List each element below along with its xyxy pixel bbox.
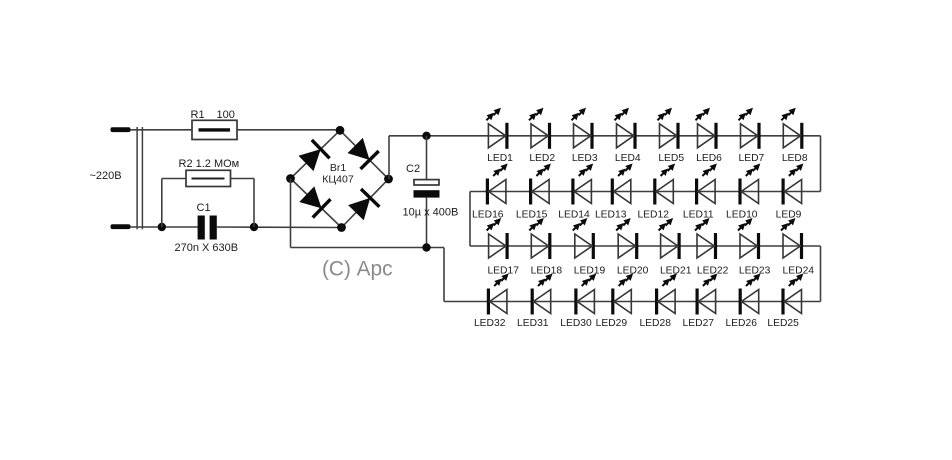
svg-text:LED13: LED13 <box>595 210 627 221</box>
node bridge bottom <box>337 223 346 232</box>
svg-text:Br1: Br1 <box>330 162 347 174</box>
wire LED row 2 <box>470 191 821 193</box>
AC connector line 2 <box>141 127 143 229</box>
wire R2 left lead <box>162 178 186 180</box>
LED LED25 <box>767 274 803 330</box>
label 270n X 630В <box>175 242 239 254</box>
LED LED20 <box>616 218 648 277</box>
svg-text:LED20: LED20 <box>617 266 649 277</box>
wire C2 top lead <box>426 136 428 180</box>
svg-text:LED29: LED29 <box>596 318 628 329</box>
wire DC- horizontal <box>291 247 445 249</box>
label ~220В <box>90 170 122 182</box>
wire DC+ rail (to LED row 1) <box>389 135 821 137</box>
node bridge top <box>336 126 345 135</box>
svg-text:LED24: LED24 <box>783 266 815 277</box>
resistor R2 <box>186 170 231 186</box>
svg-text:(С) Арс: (С) Арс <box>322 258 392 281</box>
bridge diode D4 (B to R) <box>348 189 379 220</box>
svg-text:КЦ407: КЦ407 <box>322 174 354 186</box>
wire top-left (plug to R1) <box>131 129 193 131</box>
bridge diode D3 (L to B) <box>299 186 330 217</box>
label КЦ407 <box>322 174 354 186</box>
wire bridge right node up <box>388 136 390 179</box>
wire C1 to bridge bottom node <box>217 226 342 229</box>
node C2 top junction <box>422 132 430 140</box>
svg-text:LED26: LED26 <box>725 318 757 329</box>
capacitor C1 <box>198 216 217 240</box>
LED LED7 <box>739 108 765 164</box>
LED LED11 <box>683 164 717 221</box>
label Br1 <box>330 162 347 174</box>
svg-text:LED10: LED10 <box>726 210 758 221</box>
capacitor C2 plus plate <box>414 180 439 185</box>
LED LED21 <box>659 218 692 277</box>
wire bridge edge L-T <box>291 130 341 178</box>
AC connector line 1 <box>136 127 138 229</box>
svg-text:LED30: LED30 <box>560 318 592 329</box>
svg-text:10µ x 400В: 10µ x 400В <box>403 207 459 219</box>
label 10µ x 400В <box>403 207 459 219</box>
LED LED27 <box>683 274 718 330</box>
svg-text:~220В: ~220В <box>90 170 122 182</box>
LED LED26 <box>725 274 760 330</box>
LED LED23 <box>738 218 771 277</box>
svg-text:LED23: LED23 <box>739 266 771 277</box>
wire R1 to bridge top node <box>237 129 340 131</box>
svg-text:LED12: LED12 <box>637 210 669 221</box>
wire R2 right lead <box>231 178 255 180</box>
svg-text:LED31: LED31 <box>517 318 549 329</box>
wire C2 bottom lead <box>426 198 428 248</box>
node C2 bottom junction <box>422 243 430 251</box>
wire bridge edge T-R <box>340 130 389 179</box>
LED LED14 <box>558 164 593 221</box>
AC input terminal top <box>111 127 131 132</box>
wire right link rows 3-4 <box>820 246 822 302</box>
LED LED28 <box>639 274 676 330</box>
svg-text:LED1: LED1 <box>487 153 513 164</box>
wire bridge edge L-B <box>291 179 342 228</box>
svg-text:LED5: LED5 <box>658 153 684 164</box>
LED LED17 <box>487 218 520 277</box>
svg-text:270n X 630В: 270n X 630В <box>175 242 239 254</box>
LED LED3 <box>572 108 598 164</box>
svg-text:LED18: LED18 <box>531 266 563 277</box>
node bridge left <box>286 174 295 183</box>
LED LED32 <box>474 274 509 330</box>
svg-text:LED11: LED11 <box>683 210 714 221</box>
LED LED12 <box>637 164 675 221</box>
LED LED22 <box>695 218 729 277</box>
AC input terminal bottom <box>111 224 131 229</box>
svg-text:LED32: LED32 <box>474 318 506 329</box>
svg-text:R2 1.2 МОм: R2 1.2 МОм <box>179 158 240 170</box>
LED LED10 <box>726 164 760 221</box>
LED LED31 <box>517 274 552 330</box>
LED LED9 <box>776 164 804 221</box>
label C1 <box>197 202 211 214</box>
svg-text:LED2: LED2 <box>529 153 555 164</box>
wire LED row 3 <box>470 245 821 247</box>
capacitor C2 minus plate <box>414 190 440 197</box>
LED LED29 <box>596 274 633 330</box>
svg-text:R1: R1 <box>191 109 205 121</box>
wire LED row 4 <box>444 301 821 303</box>
node bridge right <box>384 175 393 184</box>
LED LED6 <box>696 108 723 164</box>
resistor R1 <box>192 120 237 139</box>
wire R2 right vertical <box>253 179 255 228</box>
LED LED2 <box>529 108 555 164</box>
wire left link rows 2-3 <box>469 192 471 247</box>
svg-text:LED19: LED19 <box>574 266 606 277</box>
svg-text:LED28: LED28 <box>639 318 671 329</box>
label C2 <box>406 163 420 175</box>
node junction right (R2C1 right) <box>250 223 258 231</box>
LED LED16 <box>472 164 508 221</box>
bridge diode D1 (L to T) <box>299 140 330 171</box>
svg-text:LED3: LED3 <box>572 153 598 164</box>
wire DC- corner down <box>443 248 445 302</box>
svg-text:LED25: LED25 <box>767 318 799 329</box>
LED LED1 <box>486 108 513 164</box>
wire bridge edge B-R <box>342 179 389 228</box>
node junction left (R2C1 left) <box>158 223 166 231</box>
LED LED8 <box>781 108 808 164</box>
svg-text:C1: C1 <box>197 202 211 214</box>
LED LED24 <box>781 218 814 277</box>
svg-text:LED7: LED7 <box>739 153 765 164</box>
wire R2 left vertical <box>161 179 163 228</box>
svg-text:LED22: LED22 <box>697 266 729 277</box>
LED LED18 <box>529 218 562 277</box>
svg-text:LED27: LED27 <box>683 318 715 329</box>
svg-text:C2: C2 <box>406 163 420 175</box>
LED LED15 <box>516 164 551 221</box>
LED LED30 <box>560 274 596 330</box>
bridge diode D2 (T to R) <box>348 138 379 169</box>
LED LED4 <box>615 108 641 164</box>
svg-text:LED17: LED17 <box>487 266 519 277</box>
label R1 100 <box>191 109 235 121</box>
svg-text:100: 100 <box>217 109 235 121</box>
svg-text:LED6: LED6 <box>696 153 722 164</box>
svg-text:LED8: LED8 <box>782 153 808 164</box>
LED LED5 <box>658 108 685 164</box>
LED LED13 <box>595 164 633 221</box>
svg-text:LED4: LED4 <box>615 153 641 164</box>
watermark (С) Арс <box>322 258 392 281</box>
wire right link rows 1-2 <box>820 136 822 192</box>
LED LED19 <box>573 218 606 277</box>
label R2 1.2 МОм <box>179 158 240 170</box>
svg-text:LED9: LED9 <box>776 210 802 221</box>
wire bottom-left (plug to C1) <box>131 226 199 228</box>
wire bridge left node down <box>290 179 292 248</box>
